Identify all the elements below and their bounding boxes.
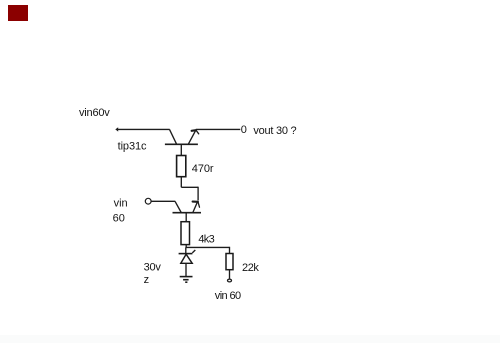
transistor Q1 tip31c	[165, 129, 198, 144]
svg-text:vout 30 ?: vout 30 ?	[253, 125, 296, 137]
vin input open terminal	[145, 198, 151, 204]
wire: junction to 22k branch	[186, 246, 230, 248]
wire: zener anode to ground	[185, 263, 187, 276]
svg-text:4k3: 4k3	[198, 233, 214, 245]
wire: Q2 collector stem	[185, 213, 187, 222]
faint bottom band	[0, 335, 500, 343]
vin 60 open terminal	[228, 279, 232, 282]
wire: Q1 emitter to vout terminal	[196, 128, 241, 130]
wire: vin terminal to Q2 base	[151, 200, 175, 202]
transistor Q2	[173, 201, 202, 212]
red marker box top-left	[8, 5, 28, 21]
wire: down to Q2 emitter	[197, 187, 199, 201]
svg-text:vin60v: vin60v	[79, 107, 110, 119]
wire: R3 bottom to terminal	[229, 270, 231, 279]
svg-text:470r: 470r	[192, 163, 214, 175]
wire: Q1 base stem	[180, 144, 182, 155]
wire: junction down to zener	[185, 247, 187, 254]
wire: junction down to R3	[229, 247, 231, 254]
zener D1 cathode bar	[179, 253, 193, 255]
resistor R1 470r	[177, 156, 186, 177]
svg-text:tip31c: tip31c	[118, 140, 147, 152]
resistor R3 22k	[226, 254, 233, 270]
wire: R2 bottom to junction	[185, 245, 187, 248]
input arrow tick (left end of supply rail)	[115, 127, 118, 131]
wire: jog right	[181, 186, 198, 188]
svg-text:z: z	[144, 274, 150, 286]
wire: supply rail to Q1 collector	[118, 128, 170, 130]
svg-text:0: 0	[241, 124, 247, 136]
zener triangle	[181, 254, 192, 263]
svg-text:60: 60	[113, 212, 125, 224]
svg-text:vin: vin	[114, 198, 128, 210]
Q1 emitter arrowhead	[192, 130, 199, 134]
svg-text:30v: 30v	[144, 262, 162, 274]
ground symbol	[180, 277, 193, 283]
Q2 emitter arrowhead	[193, 202, 200, 208]
svg-text:vin 60: vin 60	[215, 290, 241, 302]
svg-text:22k: 22k	[242, 262, 259, 274]
wire: R1 bottom jog down	[180, 177, 182, 188]
faint corner square	[0, 0, 8, 7]
resistor R2 4k3	[181, 222, 190, 245]
zener hook	[192, 250, 195, 253]
